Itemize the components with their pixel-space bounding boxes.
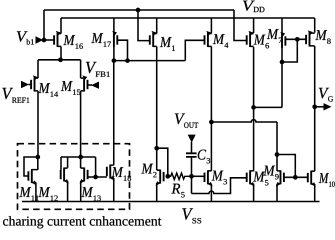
wire M11 drain up — [37, 157, 39, 170]
wire M11 gate loop — [24, 157, 38, 176]
capacitor C3 — [186, 153, 197, 157]
junction M6/M7 drain node — [251, 105, 256, 110]
transistor M16 (PMOS cascode, gate V_b1) — [54, 31, 61, 47]
wire VDD to M6 source — [253, 18, 255, 33]
wire M2 gate loop — [157, 148, 168, 176]
label M17 — [91, 33, 111, 47]
wire M1 source down to M2 drain — [156, 46, 158, 169]
wire V_b1 riser — [43, 10, 45, 40]
input terminal V_b1 arrow — [36, 36, 44, 44]
wire V_b1 top rail — [44, 9, 234, 11]
wire VDD rail end to M8 source — [314, 18, 316, 33]
wire M7 drain down — [281, 48, 283, 107]
junction V_G tap — [312, 104, 317, 109]
wire M6 drain node to M7 drain — [254, 106, 282, 108]
junction M2 gate / R5 node — [165, 174, 170, 179]
transistor M7 (PMOS diode) — [280, 32, 285, 48]
wire M18 source to VSS — [113, 178, 115, 202]
wire M3 gate node down to gate bus — [191, 176, 193, 193]
wire M8 drain to M10 drain — [314, 46, 316, 171]
wire M17 gate loop — [117, 40, 127, 60]
junction M16 drain with pair sources — [58, 57, 63, 62]
junction V_b1 rail to M1 gate drop — [136, 8, 141, 13]
junction M14 drain / M11 tie — [35, 155, 40, 160]
junction M2 drain/gate tie — [154, 146, 159, 151]
junction M17 drain node — [112, 58, 117, 63]
label M16 — [63, 35, 83, 49]
wire M13 gate to M18 gate — [88, 176, 107, 178]
label M14 — [38, 83, 58, 97]
label C3 — [198, 150, 210, 164]
wire M7 gate to M8 gate — [285, 38, 306, 40]
transistor M10 (NMOS) — [308, 171, 316, 187]
label M1 — [160, 37, 175, 51]
wire M9 gate to M10 gate — [284, 176, 308, 178]
junction M7/M8 gates — [295, 37, 300, 42]
wire V_b1 input to M16 gate — [42, 39, 54, 41]
transistor M13 (NMOS diode) — [80, 168, 88, 184]
wire M17 drain line — [114, 60, 185, 62]
input terminal V_FB1 arrow — [91, 82, 99, 89]
label M7 — [267, 29, 282, 43]
transistor M14 (PMOS input V_REF1) — [31, 75, 38, 91]
wire M12 drain up — [67, 157, 69, 168]
wire V_b1 to M1 gate — [138, 10, 150, 41]
resistor R5 — [168, 173, 192, 179]
wire M6 drain to M5 drain — [253, 47, 255, 171]
label M3 — [212, 171, 227, 185]
junction M7 drain/gate tie — [280, 60, 285, 65]
wire gate bus to M5 gate with hop over M3 source — [192, 178, 247, 194]
label M8 — [315, 30, 330, 44]
wire mirror line y=122 with crossover hop — [211, 120, 277, 122]
M11 leads — [32, 170, 38, 183]
net label V_OUT — [175, 114, 198, 128]
junction M13/M18 gate tie — [93, 175, 98, 180]
wire node A to M12 gate — [60, 157, 62, 170]
wire VDD to M7 source — [281, 18, 283, 34]
wire V_b1 to M6 gate — [234, 10, 247, 41]
caption text — [3, 216, 161, 228]
label M4 — [213, 34, 229, 48]
transistor M17 (PMOS diode) — [112, 31, 117, 47]
transistor M5 (NMOS) — [247, 170, 255, 186]
transistor M15 (PMOS input V_FB1) — [81, 75, 88, 91]
transistor M3 (NMOS) — [205, 170, 213, 186]
transistor M8 (PMOS) — [306, 30, 315, 46]
wire M17 drain down — [113, 47, 115, 61]
net label V_G — [319, 88, 333, 102]
label M12 — [38, 187, 57, 201]
label M15 — [61, 81, 81, 95]
wire M12 source to VSS — [67, 181, 69, 202]
output terminal V_G arrow — [324, 103, 332, 110]
transistor M2 (NMOS diode) — [156, 170, 164, 186]
transistor M11 (NMOS diode) — [28, 169, 36, 185]
wire V_REF1 to M14 gate — [29, 84, 32, 86]
wire C3 top plate to V_OUT — [191, 142, 193, 154]
dashed box: charging current enhancement block — [18, 144, 130, 210]
wire M3 source to VSS — [210, 184, 212, 202]
wire M9 gate loop — [277, 155, 295, 178]
transistor M12 (NMOS) — [61, 168, 69, 184]
wire M9 drain up lead — [276, 155, 278, 171]
wire diff pair source line — [38, 59, 81, 61]
junction M17 gate tie — [125, 58, 130, 63]
wire line down to M15 source — [80, 60, 82, 78]
wire M16 drain down — [60, 46, 62, 59]
wire bias line to M4 gate — [185, 40, 204, 60]
wire C3 bottom plate down — [191, 157, 193, 176]
wire node A down to gate tie — [95, 157, 97, 177]
net label V_SS — [182, 208, 201, 223]
net label V_b1 — [17, 31, 34, 44]
net label V_REF1 — [2, 88, 29, 103]
wire VSS rail — [22, 201, 320, 203]
junction M9/M10 gate wire — [293, 175, 298, 180]
transistor M4 (PMOS) — [205, 31, 212, 47]
junction node A (M15 drain) — [78, 155, 83, 160]
wire M11 source to VSS — [35, 182, 37, 201]
wire V_G tap to terminal — [315, 106, 324, 108]
wire line down to M14 source — [37, 60, 39, 78]
wire M5 source to VSS — [253, 184, 255, 202]
label M11 — [19, 187, 38, 201]
wire M15 gate to V_FB1 — [88, 84, 93, 86]
junction M9 drain/gate tie — [275, 152, 280, 157]
label M10 — [319, 173, 335, 187]
wire node to M3 gate — [192, 175, 205, 177]
label M6 — [254, 35, 269, 49]
wire VDD to M4 source — [210, 18, 212, 34]
label M13 — [81, 187, 101, 201]
transistor M9 (NMOS diode) — [276, 170, 284, 186]
wire M10 source to VSS — [314, 184, 316, 202]
wire M14 drain down — [37, 91, 39, 157]
junction M4 drain mirror tap — [209, 120, 214, 125]
label M5 — [253, 172, 268, 186]
node V_b1 junction — [42, 38, 47, 43]
wire mirror line down to M9 drain — [276, 122, 278, 155]
wire M4 drain to M3 drain — [210, 46, 212, 170]
net label V_FB1 — [86, 62, 110, 77]
input terminal V_REF1 arrow — [21, 81, 29, 88]
label M2 — [141, 164, 156, 178]
wire M15 drain down to node A — [80, 91, 82, 168]
wire VDD to M1 source — [156, 18, 158, 34]
output terminal V_OUT arrow — [188, 135, 196, 143]
wire M13 source to VSS — [80, 181, 82, 202]
net label V_DD — [243, 1, 265, 12]
wire M18 drain up to M17 drain node — [113, 61, 115, 166]
wire M7/M8 gate loop down — [282, 39, 297, 62]
wire M2 source to VSS — [156, 183, 158, 202]
transistor M18 (NMOS) — [107, 165, 115, 181]
junction R5 / C3 / M3 gate node — [189, 174, 194, 179]
label M18 — [112, 167, 132, 181]
wire VDD to M16 source — [60, 18, 62, 34]
wire VDD rail — [61, 17, 315, 19]
transistor M1 (PMOS) — [150, 31, 157, 47]
wire VDD to M17 source — [113, 18, 115, 33]
label M9 — [263, 166, 278, 180]
wire M9 source to VSS — [276, 184, 278, 202]
transistor M6 (PMOS) — [247, 31, 254, 47]
wire node A horizontal — [61, 156, 96, 158]
label R5 — [171, 184, 184, 198]
